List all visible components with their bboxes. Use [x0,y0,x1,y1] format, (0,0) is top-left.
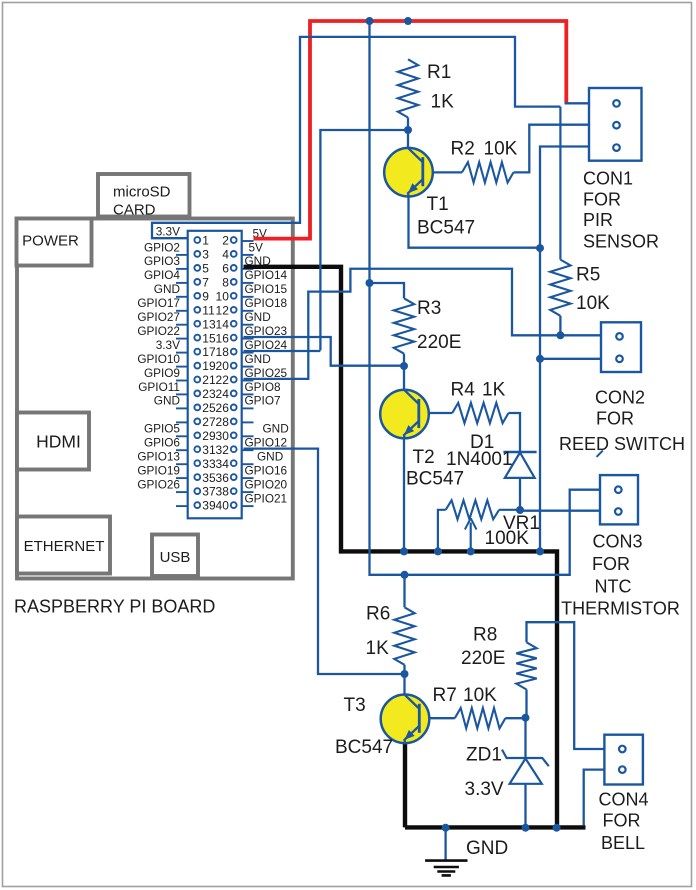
svg-text:40: 40 [216,499,230,513]
wire GND pin6 (black) [244,267,558,828]
wire ZD1 leads [524,718,526,828]
svg-text:1K: 1K [366,638,390,659]
wire T2 base to R4 [420,412,452,414]
transistor T1 BC547 [384,148,433,197]
wire T1 collector node [320,118,408,351]
wire GPIO12 to T3 [244,449,405,674]
junction R3 top branch [366,279,374,287]
svg-text:9: 9 [202,289,209,303]
svg-text:38: 38 [216,485,230,499]
junction R5/CON2 pin1 [556,331,564,339]
svg-text:17: 17 [202,345,216,359]
label CON4 FOR BELL [598,790,648,854]
svg-text:SENSOR: SENSOR [583,232,659,252]
svg-text:31: 31 [202,443,216,457]
wire CON4 pin2 to ground [584,770,605,826]
svg-text:GPIO24: GPIO24 [245,338,288,352]
svg-text:GPIO2: GPIO2 [144,240,180,254]
svg-text:100K: 100K [485,528,530,549]
resistor R8 220E [461,625,537,690]
svg-text:CON2: CON2 [595,388,645,408]
svg-text:CON1: CON1 [583,169,633,189]
svg-text:36: 36 [216,471,230,485]
svg-text:5V: 5V [249,240,264,254]
svg-text:35: 35 [202,471,216,485]
svg-text:GPIO21: GPIO21 [245,491,288,505]
svg-text:BC547: BC547 [406,469,464,490]
svg-text:1: 1 [202,234,209,248]
svg-text:GPIO6: GPIO6 [144,436,180,450]
svg-text:T3: T3 [344,695,366,716]
connector CON3 [600,475,638,524]
svg-text:T1: T1 [427,194,449,215]
svg-text:1N4001: 1N4001 [446,449,513,470]
svg-text:4: 4 [222,248,229,262]
svg-text:28: 28 [216,415,230,429]
svg-text:R8: R8 [473,625,497,646]
label CON2 FOR REED SWITCH [559,388,685,455]
svg-text:10K: 10K [484,139,518,160]
svg-text:REED SWITCH: REED SWITCH [559,434,685,454]
wire CON1 pin3 / ground bus [540,147,589,552]
svg-text:R6: R6 [366,604,390,625]
wire 5V rail branch [370,21,601,575]
svg-text:26: 26 [216,401,230,415]
junction red/R3-branch [366,17,374,25]
svg-text:10K: 10K [576,293,610,314]
connector CON4 [604,735,643,785]
wire R8 bottom lead [525,690,527,718]
junction R7/R8/ZD1 [522,714,530,722]
wire GPIO23 to T2 collector [244,337,405,366]
POWER box [17,219,92,266]
svg-text:NTC: NTC [595,577,632,597]
svg-text:23: 23 [202,387,216,401]
Raspberry Pi board outline [17,219,293,579]
svg-text:GPIO14: GPIO14 [245,268,288,282]
junction T1 collector node [404,126,412,134]
microSD CARD box [98,174,190,219]
USB box [152,535,198,577]
svg-text:39: 39 [202,499,216,513]
resistor R4 1K [451,380,509,424]
svg-text:ETHERNET: ETHERNET [24,538,105,555]
svg-text:10: 10 [216,289,230,303]
wire D1 to VR1 node [519,478,521,510]
svg-text:GPIO18: GPIO18 [245,296,288,310]
svg-text:34: 34 [216,457,230,471]
svg-text:20: 20 [216,359,230,373]
junction VR1 wiper/GND [467,547,475,555]
junction ground bus/GND [536,547,544,555]
svg-text:GPIO17: GPIO17 [137,296,180,310]
svg-text:GND: GND [263,422,289,436]
svg-text:CARD: CARD [113,202,156,219]
svg-text:10K: 10K [463,685,497,706]
wire CON1 pin2 to R2 [514,125,590,173]
svg-text:37: 37 [202,485,216,499]
wire GPIO25 to CON2 pin1 [244,269,602,379]
svg-text:GPIO10: GPIO10 [137,352,180,366]
svg-text:microSD: microSD [113,184,171,201]
svg-text:T2: T2 [413,447,435,468]
wire CON2 pin2 [540,358,601,360]
svg-text:GPIO12: GPIO12 [245,436,288,450]
svg-text:GPIO15: GPIO15 [245,282,288,296]
wire CON1 pin1 stub [565,102,589,104]
svg-text:GND: GND [245,352,271,366]
GPIO header J1 [137,224,288,518]
junction R6 bottom/GPIO12/T3 [401,670,409,678]
HDMI box [17,413,89,470]
potentiometer VR1 100K [438,500,540,551]
svg-text:13: 13 [202,317,216,331]
junction VR1/D1/CON3 pin2 [516,506,524,514]
svg-text:3.3V: 3.3V [156,224,180,238]
ETHERNET box [17,517,110,574]
junction R6 top/5V line [401,571,409,579]
svg-text:BELL: BELL [601,833,645,853]
svg-text:3.3V: 3.3V [465,779,504,800]
zener diode ZD1 3.3V [465,745,549,801]
svg-text:8: 8 [222,275,229,289]
svg-text:15: 15 [202,331,216,345]
svg-text:3.3V: 3.3V [156,338,180,352]
wire R8 top to CON4 pin1 [527,622,605,749]
svg-text:R2: R2 [451,139,475,160]
svg-text:GPIO16: GPIO16 [245,463,288,477]
svg-text:18: 18 [216,345,230,359]
resistor R3 220E [394,298,462,354]
wire CON3 pin2 [520,510,600,512]
svg-text:GPIO9: GPIO9 [144,366,180,380]
svg-text:BC547: BC547 [417,218,475,239]
svg-text:27: 27 [202,415,216,429]
wire T1 emitter [409,196,541,248]
svg-text:1K: 1K [482,380,506,401]
wire GPIO24 stub [244,350,321,352]
svg-text:R3: R3 [417,298,441,319]
svg-text:GPIO13: GPIO13 [137,450,180,464]
svg-text:2: 2 [222,234,229,248]
junction GND symbol [442,824,450,832]
wire 3.3V pin1 to R5 [152,37,560,238]
svg-text:3: 3 [202,248,209,262]
svg-text:220E: 220E [461,648,505,669]
junction VR1 left/GND [434,547,442,555]
svg-text:GPIO7: GPIO7 [245,394,281,408]
wire T2 emitter [403,438,405,552]
stray tick near REED [597,451,603,457]
junction red/R1 [404,17,412,25]
label CON3 FOR NTC THERMISTOR [561,532,680,619]
svg-text:GND: GND [466,838,508,859]
wire ground symbol lead [444,828,446,860]
wire R3 bottom to T2 [403,354,405,391]
svg-text:16: 16 [216,331,230,345]
svg-text:GPIO20: GPIO20 [245,477,288,491]
label CON1 FOR PIR SENSOR [583,169,659,252]
svg-text:19: 19 [202,359,216,373]
svg-text:GPIO3: GPIO3 [144,254,180,268]
svg-text:29: 29 [202,429,216,443]
svg-text:FOR: FOR [583,190,621,210]
svg-text:GPIO11: GPIO11 [138,380,180,394]
svg-text:GND: GND [154,282,180,296]
resistor R6 1K [366,604,415,665]
svg-text:220E: 220E [417,332,461,353]
svg-text:GPIO5: GPIO5 [144,422,180,436]
svg-text:32: 32 [216,443,230,457]
transistor T2 BC547 [380,390,429,439]
wire 5V pin2 (red) [254,21,567,239]
wire R3 top branch [370,283,405,298]
svg-text:GPIO26: GPIO26 [137,477,180,491]
svg-text:GPIO22: GPIO22 [137,324,180,338]
connector CON1 [589,88,642,161]
svg-text:1K: 1K [431,92,455,113]
svg-text:ZD1: ZD1 [466,745,502,766]
svg-text:6: 6 [222,262,229,276]
resistor R5 10K [550,107,610,316]
connector CON2 [601,322,641,372]
svg-text:24: 24 [216,387,230,401]
svg-text:7: 7 [202,275,209,289]
svg-text:GPIO8: GPIO8 [245,380,281,394]
junction T2 collector node [400,362,408,370]
transistor T3 BC547 [381,695,430,744]
svg-text:33: 33 [202,457,216,471]
svg-text:GND: GND [245,310,271,324]
svg-text:R5: R5 [576,265,600,286]
svg-text:21: 21 [202,373,216,387]
svg-text:R4: R4 [451,380,476,401]
svg-text:USB: USB [160,549,191,566]
svg-text:11: 11 [202,303,215,317]
svg-text:GPIO4: GPIO4 [144,268,180,282]
svg-text:30: 30 [216,429,230,443]
wire T3 base to R7 [421,717,526,719]
svg-text:12: 12 [216,303,230,317]
svg-text:5: 5 [202,262,209,276]
svg-text:THERMISTOR: THERMISTOR [561,599,680,619]
svg-text:PIR: PIR [583,210,613,230]
wire R4 to D1 [509,413,521,452]
svg-text:POWER: POWER [22,233,79,250]
resistor R7 10K [433,685,506,728]
junction T2 emitter/GND [400,547,408,555]
svg-text:GND: GND [257,450,283,464]
svg-text:R7: R7 [433,685,457,706]
svg-text:CON4: CON4 [598,790,648,810]
svg-text:FOR: FOR [603,811,641,831]
resistor R1 1K [398,59,454,117]
svg-text:BC547: BC547 [335,737,393,758]
svg-text:FOR: FOR [596,409,634,429]
svg-text:25: 25 [202,401,216,415]
ground symbol [425,838,508,875]
svg-text:22: 22 [216,373,230,387]
svg-text:14: 14 [216,317,230,331]
svg-text:RASPBERRY PI BOARD: RASPBERRY PI BOARD [14,597,215,617]
wire R5 bottom lead [559,316,561,336]
junction T1 emitter/ground bus [536,244,544,252]
junction ZD1/ground rail [522,824,530,832]
wire R6 leads [403,575,405,696]
wire T3 emitter (black) [403,742,407,827]
svg-text:GPIO27: GPIO27 [137,310,180,324]
resistor R2 10K [424,139,518,183]
svg-text:GPIO25: GPIO25 [245,366,288,380]
svg-text:FOR: FOR [592,554,630,574]
svg-text:CON3: CON3 [592,532,642,552]
svg-text:HDMI: HDMI [36,432,81,452]
junction CON2 pin2/ground bus [536,355,544,363]
wire ground rail (black) [405,825,586,829]
svg-text:R1: R1 [427,62,451,83]
svg-text:GPIO19: GPIO19 [137,463,180,477]
diode D1 1N4001 [446,432,537,478]
junction ground bus/rail [553,824,561,832]
svg-text:GND: GND [154,394,180,408]
